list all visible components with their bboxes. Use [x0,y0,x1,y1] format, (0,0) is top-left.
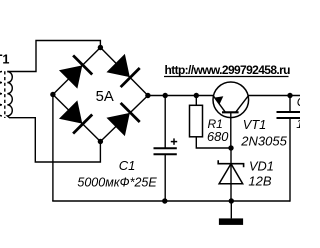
bridge edge top-right [100,48,147,96]
svg-text:http://www.299792458.ru: http://www.299792458.ru [165,63,291,77]
wire R1 top lead [195,96,197,106]
VT1 collector line [236,96,249,113]
capacitor C2 (cut at right edge) [277,111,301,113]
VT1 emitter line [213,96,225,113]
node ground junction on bottom rail [229,198,234,203]
transformer T1 secondary winding [7,72,12,118]
diode D2 top-right (anode at top vertex, cathode toward right vertex) [106,53,140,87]
svg-text:2N3055: 2N3055 [240,133,287,148]
wire C1 top lead [164,96,166,149]
wire plus rail from right vertex to transistor [148,95,213,97]
bridge edge bottom-right [100,96,147,142]
node bridge left vertex [50,92,55,97]
wire C1 bottom lead [164,154,166,201]
wire R1 bottom lead to base node [196,137,231,148]
wire minus (left vertex) down to bottom rail [52,95,54,202]
svg-text:5A: 5A [96,89,114,105]
wire C2 bottom lead down to ground rail [289,118,291,202]
transformer T1 core [4,71,6,118]
svg-text:С2: С2 [297,95,300,109]
diode D4 bottom-right (anode at bottom vertex, cathode toward right vertex) [106,103,140,137]
svg-text:VT1: VT1 [243,117,266,132]
svg-text:C1: C1 [119,158,136,173]
resistor R1 [190,105,203,137]
node C1 on ground rail [162,198,167,203]
wire bottom ground rail [52,200,290,202]
node bridge right vertex [145,93,150,98]
diode D3 bottom-left (anode at left vertex, cathode toward bottom vertex) [59,100,93,134]
wire zener lead (node to ground rail) [230,148,232,201]
node bridge top vertex [98,45,103,50]
link underline [164,76,289,78]
node base / zener junction [228,145,233,150]
ground symbol bar [219,218,243,225]
node C2 tap on output rail [287,93,292,98]
C1 plus sign [171,141,177,143]
svg-text:Т1: Т1 [0,53,9,67]
ground symbol stem [230,201,232,218]
node R1 tap on plus rail [194,93,199,98]
bridge edge left-top [53,48,101,95]
wire output rail from transistor collector to right edge [248,95,300,97]
diode D1 top-left (anode at left vertex, cathode toward top vertex) [59,55,93,89]
capacitor C1 [154,147,177,149]
node bridge bottom vertex [98,139,103,144]
VT1 emitter arrow [214,96,223,104]
wire secondary top to bridge top vertex [7,41,100,72]
svg-text:12В: 12В [248,174,271,189]
transistor VT1 [213,82,249,118]
zener diode VD1 triangle (anode) [219,164,243,184]
bridge edge left-bottom [53,95,101,142]
wire C2 top lead [289,96,291,113]
svg-text:5000мкФ*25Е: 5000мкФ*25Е [77,176,157,190]
node C1 tap on plus rail [163,93,168,98]
wire secondary bottom to bridge bottom vertex [9,118,100,162]
transformer T1 primary winding (cut at left edge) [0,72,2,116]
VT1 base bar [222,111,239,113]
zener diode VD1 cathode bar with hooks [218,160,243,167]
svg-text:10: 10 [296,117,300,131]
svg-text:VD1: VD1 [249,158,274,173]
svg-text:680: 680 [207,129,229,144]
wire VT1 base lead down to zener node [230,112,232,148]
